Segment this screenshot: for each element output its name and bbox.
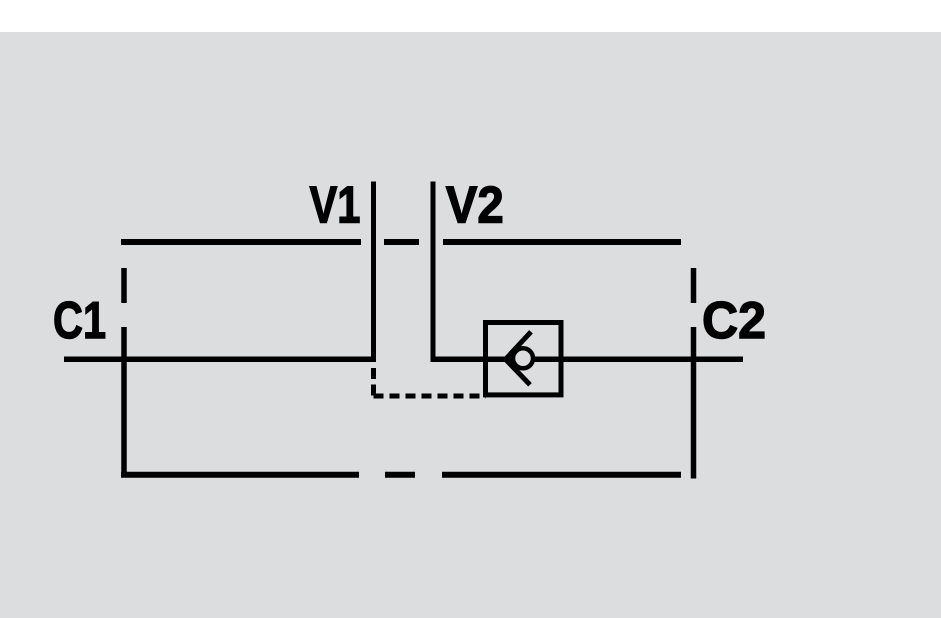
envelope right dash upper — [691, 268, 697, 303]
envelope right side wire — [691, 327, 697, 479]
pilot line vertical (dashed) — [371, 368, 376, 397]
port C1 wire — [64, 357, 376, 363]
check valve ball — [513, 348, 533, 368]
envelope top dash middle — [384, 239, 419, 245]
svg-text:V1: V1 — [310, 176, 361, 234]
pilot line horizontal (dashed) — [374, 394, 487, 399]
envelope left dash upper — [121, 268, 127, 303]
envelope bottom dash left — [121, 472, 359, 478]
port C2 wire through check valve — [431, 357, 744, 363]
port V2 wire — [431, 182, 436, 362]
svg-text:V2: V2 — [446, 176, 504, 234]
port V1 wire — [371, 182, 376, 362]
envelope bottom dash right — [442, 472, 681, 478]
svg-text:C1: C1 — [53, 292, 106, 350]
check valve body box — [486, 323, 562, 395]
envelope bottom dash middle — [385, 472, 415, 478]
envelope top dash right — [443, 239, 681, 245]
check valve seat — [506, 332, 532, 385]
svg-text:C2: C2 — [702, 292, 766, 350]
envelope top dash left — [121, 239, 361, 245]
envelope left side wire — [121, 327, 127, 478]
